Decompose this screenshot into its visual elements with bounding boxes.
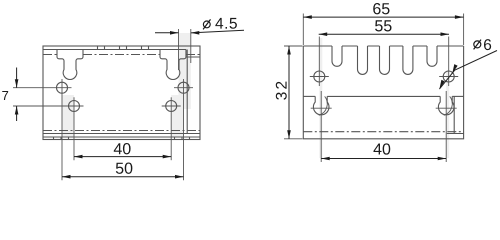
dim texts left view xyxy=(2,18,237,174)
gray hint band right holes xyxy=(171,95,183,137)
diameter symbol 6 xyxy=(474,40,481,50)
crosshair UR xyxy=(174,87,193,89)
plate outline xyxy=(43,46,200,140)
dim 40 line xyxy=(321,158,446,160)
dim 65 line xyxy=(303,16,463,18)
centerline top (dash-dot) xyxy=(43,54,200,56)
dimensions right view xyxy=(289,17,497,158)
keyhole slot left xyxy=(57,50,83,80)
text 65 xyxy=(373,3,389,14)
bottom band ticks xyxy=(54,137,190,140)
bottom centerline dash-dot xyxy=(303,131,463,133)
text 32 (rotated) xyxy=(276,82,287,100)
arrows dim 4.5 xyxy=(170,31,179,35)
recess inner line xyxy=(303,95,315,97)
right corner step xyxy=(453,96,455,133)
dia4.5 ext lines xyxy=(178,29,180,70)
keyhole bottom-view right xyxy=(438,96,454,114)
text 4.5 xyxy=(215,18,237,29)
dia6 leader xyxy=(439,51,497,90)
hole upper-right xyxy=(178,82,189,93)
text 6 xyxy=(484,39,491,50)
arrows dim 40 xyxy=(321,157,330,161)
65 ext lines xyxy=(302,14,304,46)
arrows dia6 leader xyxy=(450,63,458,73)
dim texts right view xyxy=(276,3,491,155)
comb slot 4 (long) xyxy=(403,46,413,74)
crosshair UL + 7dim ext xyxy=(13,87,72,89)
hole lower-left xyxy=(69,101,80,112)
crosshair LR xyxy=(162,105,181,107)
text 55 xyxy=(375,20,391,31)
keyhole right centerlines xyxy=(436,107,457,109)
dim 32 line xyxy=(288,46,290,139)
comb slot 5 (short) xyxy=(427,46,437,66)
comb slot 3 (long) xyxy=(380,46,390,74)
dim 4.5 line xyxy=(155,32,179,34)
dim 50 line xyxy=(62,176,184,178)
bottom centerline (dash-dot) xyxy=(43,130,200,132)
arrows dim 32 xyxy=(287,46,291,55)
top band line xyxy=(43,49,186,51)
arrows dim 7 xyxy=(15,79,19,88)
hole upper-left xyxy=(57,82,68,93)
bottom lines xyxy=(43,133,200,135)
circle left crosshair + 55 ext xyxy=(310,76,329,78)
dimensions left view xyxy=(17,30,244,177)
arrows dim 65 xyxy=(303,15,312,19)
top-right step notch xyxy=(186,50,200,58)
crosshair + extension thin lines xyxy=(13,29,193,180)
dim 40 line xyxy=(74,156,171,158)
comb slot 2 (long) xyxy=(358,46,368,74)
inner right wall line xyxy=(186,50,188,134)
circle hole left xyxy=(314,71,325,82)
outline with comb slots on top xyxy=(303,45,463,47)
gray hint band left holes xyxy=(62,95,74,137)
diameter symbol 4.5 xyxy=(203,19,210,29)
text 40 xyxy=(373,143,390,154)
keyhole slot right xyxy=(160,50,186,80)
crosshairs / ext lines right view xyxy=(284,14,464,163)
top band ticks xyxy=(98,46,149,50)
keyhole bottom-view left xyxy=(313,96,329,114)
arrows dim 40 xyxy=(74,155,83,159)
text 40 xyxy=(114,143,131,154)
arrows dim 50 xyxy=(62,175,71,179)
gray band 55/40 ext left xyxy=(319,38,322,158)
gray hint band dia4.5 ext xyxy=(179,33,191,109)
32 ext lines xyxy=(284,45,303,47)
text 50 xyxy=(116,163,133,174)
hole lower-right xyxy=(166,101,177,112)
text 7 xyxy=(2,91,8,100)
comb slot 1 (short) xyxy=(332,46,342,66)
circle right crosshair + 55 ext xyxy=(439,76,458,78)
dim 55 line xyxy=(319,33,449,35)
gray band right keyhole xyxy=(446,70,449,158)
circle hole right xyxy=(443,71,454,82)
arrows dim 55 xyxy=(319,32,328,36)
crosshair LL + 7dim ext xyxy=(13,105,84,107)
dim 7 line xyxy=(16,68,18,88)
keyhole left centerlines xyxy=(311,107,332,109)
